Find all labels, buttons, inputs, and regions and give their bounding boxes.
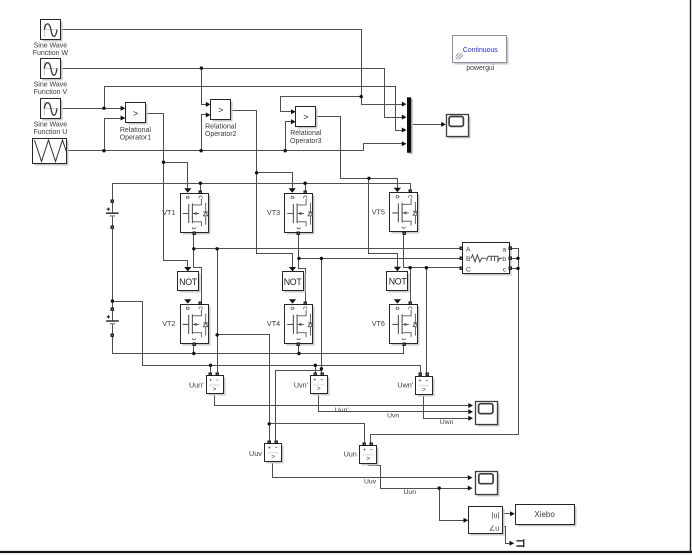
svg-text:>: > <box>366 456 370 463</box>
svg-text:Operator3: Operator3 <box>290 138 322 145</box>
svg-text:a: a <box>502 246 506 253</box>
svg-text:Uun: Uun <box>344 450 357 459</box>
svg-text:>: > <box>317 386 321 393</box>
svg-text:NOT: NOT <box>389 277 408 287</box>
svg-text:b: b <box>502 256 506 263</box>
svg-text:>: > <box>218 105 223 115</box>
svg-text:>: > <box>271 454 275 461</box>
svg-text:Sine Wave: Sine Wave <box>34 82 68 89</box>
svg-text:Uwn: Uwn <box>440 419 454 426</box>
svg-text:|u|: |u| <box>492 513 500 520</box>
svg-text:C: C <box>466 266 471 273</box>
svg-text:>: > <box>133 108 138 118</box>
svg-text:c: c <box>503 266 507 273</box>
svg-text:>: > <box>303 112 308 122</box>
svg-text:Uun': Uun' <box>335 407 349 414</box>
svg-text:Uvn': Uvn' <box>294 380 309 389</box>
svg-text:Relational: Relational <box>290 130 322 137</box>
svg-text:Sine Wave: Sine Wave <box>34 43 68 50</box>
svg-text:∠u: ∠u <box>489 525 499 533</box>
svg-text:Continuous: Continuous <box>463 47 498 54</box>
svg-text:A: A <box>466 246 471 253</box>
svg-text:Uun: Uun <box>404 489 417 496</box>
svg-text:Xiebo: Xiebo <box>534 510 555 519</box>
svg-text:VT5: VT5 <box>372 208 385 217</box>
svg-text:VT2: VT2 <box>162 319 175 328</box>
svg-text:NOT: NOT <box>179 277 198 287</box>
svg-text:Operator1: Operator1 <box>120 135 152 142</box>
svg-text:VT3: VT3 <box>267 208 280 217</box>
svg-text:Uun': Uun' <box>189 380 204 389</box>
svg-text:Function V: Function V <box>34 89 68 96</box>
svg-text:Uvn: Uvn <box>387 412 399 419</box>
svg-text:Uwn': Uwn' <box>397 381 413 390</box>
svg-text:powergui: powergui <box>466 65 494 72</box>
svg-text:NOT: NOT <box>284 277 303 287</box>
svg-text:Function W: Function W <box>33 50 69 57</box>
svg-text:Sine Wave: Sine Wave <box>34 121 68 128</box>
svg-text:Relational: Relational <box>120 127 152 134</box>
svg-text:B: B <box>466 256 471 263</box>
svg-text:Operator2: Operator2 <box>205 131 237 138</box>
svg-text:>: > <box>213 386 217 393</box>
svg-text:Uuv: Uuv <box>249 449 262 458</box>
svg-text:Uuv: Uuv <box>364 479 377 486</box>
svg-text:VT4: VT4 <box>267 319 280 328</box>
svg-text:Function U: Function U <box>33 129 67 136</box>
svg-text:VT1: VT1 <box>162 208 175 217</box>
svg-text:Relational: Relational <box>205 124 237 131</box>
svg-text:>: > <box>422 386 426 393</box>
svg-text:VT6: VT6 <box>372 319 385 328</box>
